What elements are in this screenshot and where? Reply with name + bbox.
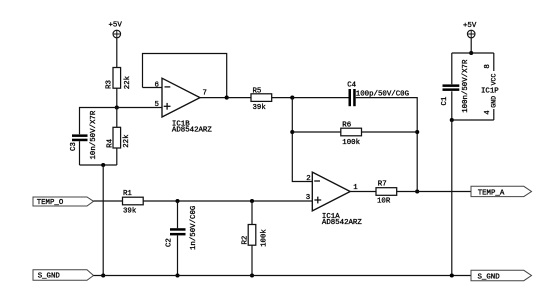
capacitor C2 1n/50V/C0G	[166, 206, 198, 250]
wire C4 to right vertical	[356, 98, 418, 192]
wire +5V rail horizontal	[452, 52, 494, 54]
wire TEMP_O to R1	[94, 200, 123, 202]
svg-text:R1: R1	[123, 190, 132, 198]
junction +5V rail	[469, 51, 473, 55]
wire R5 to node	[272, 97, 293, 99]
wire feedback IC1B	[143, 54, 227, 98]
svg-text:R2: R2	[242, 236, 250, 245]
svg-text:R4: R4	[107, 138, 115, 147]
wire output IC1B	[200, 97, 227, 99]
svg-text:R3: R3	[106, 80, 114, 89]
capacitor C1 100n/50V/X7R	[441, 59, 470, 113]
svg-text:10R: 10R	[377, 198, 391, 206]
capacitor C3 10n/50V/X7R	[70, 110, 98, 159]
svg-text:100k: 100k	[342, 139, 360, 147]
wire node to C4	[292, 97, 348, 99]
wire C3 to bottom rail	[79, 141, 81, 165]
junction IC1B output	[225, 96, 229, 100]
svg-text:1n/50V/C0G: 1n/50V/C0G	[190, 206, 198, 250]
wire node to pin5	[117, 107, 162, 109]
svg-text:7: 7	[203, 90, 207, 98]
wire S_GND rail	[94, 275, 472, 277]
wire C1 top	[451, 53, 453, 84]
svg-text:GND: GND	[491, 96, 498, 108]
wire gnd down to S_GND	[451, 120, 453, 276]
resistor R2 100k	[242, 225, 269, 247]
svg-text:22k: 22k	[124, 75, 132, 89]
svg-text:IC1P: IC1P	[481, 88, 499, 96]
wire bottom rail C3/R4	[80, 164, 117, 166]
junction R6 left	[290, 130, 294, 134]
resistor R1 39k	[123, 190, 144, 216]
svg-text:S_GND: S_GND	[38, 273, 61, 281]
op-amp IC1A AD8542ARZ	[312, 172, 362, 227]
svg-text:TEMP_A: TEMP_A	[478, 189, 505, 197]
wire output IC1A	[350, 191, 376, 193]
svg-text:AD8542ARZ: AD8542ARZ	[322, 219, 362, 227]
resistor R7 10R	[376, 181, 397, 206]
power part IC1P	[481, 53, 499, 120]
flag S_GND (left)	[33, 270, 94, 281]
junction C2 bottom	[175, 273, 179, 277]
resistor R6 100k	[341, 121, 362, 147]
junction R2 bottom	[250, 273, 254, 277]
junction R2 top	[250, 199, 254, 203]
svg-text:VCC: VCC	[491, 73, 498, 85]
wire +5V to R3	[116, 38, 118, 68]
svg-text:R5: R5	[253, 88, 262, 96]
flag S_GND (right)	[471, 270, 532, 281]
svg-text:S_GND: S_GND	[478, 273, 501, 281]
svg-text:+5V: +5V	[463, 22, 477, 30]
svg-text:10n/50V/X7R: 10n/50V/X7R	[90, 110, 98, 159]
wire +5V right down	[470, 38, 472, 54]
flag TEMP_A	[471, 186, 532, 197]
svg-text:6: 6	[155, 81, 159, 89]
wire output to R5	[227, 97, 251, 99]
wire R3 to node	[116, 88, 118, 107]
svg-text:AD8542ARZ: AD8542ARZ	[172, 126, 212, 134]
resistor R4 22k	[107, 127, 131, 148]
svg-text:22k: 22k	[123, 134, 131, 148]
wire R4 to bottom rail	[116, 148, 118, 165]
junction output node right	[415, 189, 419, 193]
svg-text:8: 8	[484, 64, 492, 68]
junction on S_GND	[101, 273, 105, 277]
flag TEMP_O	[33, 197, 94, 207]
supply +5V (right)	[463, 22, 477, 38]
wire R7 to TEMP_A	[397, 191, 471, 193]
resistor R5 39k	[251, 88, 272, 113]
junction C2 top	[175, 199, 179, 203]
resistor R3 22k	[106, 68, 133, 90]
svg-text:R7: R7	[378, 181, 387, 189]
svg-text:5: 5	[155, 101, 159, 109]
svg-text:C3: C3	[70, 142, 78, 151]
capacitor C4 100p/50V/C0G	[347, 82, 409, 107]
svg-text:39k: 39k	[253, 104, 267, 112]
junction gnd rail corner	[450, 118, 454, 122]
wire R6 right	[362, 131, 418, 133]
wire R2 top	[251, 201, 253, 225]
junction bottom rail	[101, 163, 105, 167]
wire R6 left	[292, 131, 341, 133]
svg-text:R6: R6	[342, 121, 351, 129]
svg-text:C2: C2	[166, 238, 174, 247]
svg-text:+5V: +5V	[109, 22, 123, 30]
wire left vertical to pin2	[292, 98, 312, 182]
svg-text:2: 2	[306, 175, 310, 183]
junction on S_GND right	[450, 273, 454, 277]
svg-text:TEMP_O: TEMP_O	[37, 199, 64, 207]
wire C2 top	[177, 201, 179, 228]
wire gnd rail horizontal	[452, 119, 494, 121]
node R3/R4 junction	[115, 105, 119, 109]
supply +5V (left)	[109, 22, 123, 38]
svg-text:C4: C4	[347, 82, 356, 90]
wire rail down to S_GND	[102, 165, 104, 276]
svg-text:100n/50V/X7R: 100n/50V/X7R	[462, 59, 470, 113]
svg-text:100k: 100k	[261, 229, 269, 247]
svg-text:C1: C1	[441, 96, 449, 105]
wire R2 bottom	[251, 245, 253, 275]
svg-text:39k: 39k	[123, 207, 137, 215]
wire pin6	[143, 87, 163, 89]
wire node to R4	[116, 108, 118, 128]
wire R1 to pin3	[143, 200, 312, 202]
wire node to C3	[80, 108, 117, 135]
wire C2 bottom	[177, 235, 179, 275]
svg-text:4: 4	[484, 110, 492, 115]
junction R5/C4	[290, 96, 294, 100]
junction R6 right	[415, 130, 419, 134]
wire C1 bottom	[451, 91, 453, 120]
op-amp IC1B AD8542ARZ	[162, 78, 212, 134]
